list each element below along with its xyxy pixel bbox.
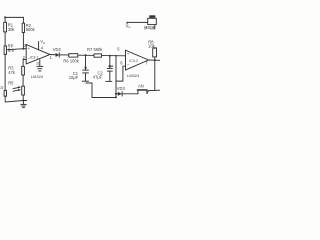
wire left rail bottom corner to ground rail <box>5 96 26 102</box>
wire left rail to R1 <box>4 17 6 22</box>
wire R5 to ground junction <box>22 95 24 101</box>
potentiometer RP <box>4 46 6 54</box>
wire -input to R3 chain <box>23 60 26 67</box>
op-amp IC3-1 <box>26 45 50 64</box>
svg-text:R6 100k: R6 100k <box>63 59 79 64</box>
wire R2 from top rail <box>22 17 24 23</box>
wire VD3 branch <box>116 93 118 95</box>
resistor R1 <box>4 22 7 32</box>
node +input junction <box>22 48 24 50</box>
svg-text:+: + <box>127 51 130 56</box>
svg-text:+: + <box>28 46 31 51</box>
wire R3 to R5 <box>22 75 24 86</box>
node ground junction <box>22 100 24 102</box>
wire VD2 to R6 <box>59 54 69 56</box>
pin 11 ground <box>39 60 41 66</box>
wire R2 down to +input node <box>22 33 24 49</box>
wire C1 bottom link to ground drop <box>86 83 92 98</box>
wire output op-amp2 to right edge <box>149 59 161 61</box>
buzzer HA <box>148 18 157 24</box>
svg-text:蜂鸣器: 蜂鸣器 <box>144 25 155 30</box>
svg-text:47μF: 47μF <box>93 74 103 79</box>
svg-text:47k: 47k <box>8 70 16 75</box>
svg-text:IC3-1: IC3-1 <box>30 55 39 59</box>
node rail junction <box>115 96 117 98</box>
op-amp IC3-2 <box>126 50 149 70</box>
svg-text:AN: AN <box>138 84 144 89</box>
wire main drop at x=116 <box>115 56 117 98</box>
resistor R8 <box>154 57 156 60</box>
resistor R7 <box>94 54 102 57</box>
wire output op-amp1 <box>50 54 56 56</box>
RP wiper arrow wire to +input node <box>9 48 24 51</box>
photoresistor R5 <box>22 86 25 95</box>
capacitor C1 <box>85 55 87 70</box>
node output junction <box>154 59 156 61</box>
svg-text:11: 11 <box>36 62 40 66</box>
ground symbol <box>22 101 24 105</box>
svg-text:LM324: LM324 <box>127 73 140 78</box>
wire output down to AN wire <box>154 60 156 90</box>
wire VG to buzzer <box>127 21 148 23</box>
resistor R4 (label cut off at edge) <box>4 90 6 96</box>
svg-text:R5: R5 <box>8 81 14 86</box>
node C2 junction <box>109 55 111 57</box>
wire R8 top stub <box>154 47 156 50</box>
svg-text:500k: 500k <box>26 27 36 32</box>
resistor R3 <box>22 66 25 75</box>
svg-text:IC3-2: IC3-2 <box>129 59 138 63</box>
wire AN to right edge <box>147 90 160 93</box>
wire pin6 feedback path <box>116 66 123 81</box>
resistor R6 <box>69 54 78 57</box>
capacitor C2 <box>109 56 111 69</box>
wire bottom ground rail <box>92 97 116 99</box>
svg-text:R7 560k: R7 560k <box>87 47 103 52</box>
svg-text:30k: 30k <box>8 27 16 32</box>
svg-text:LM324: LM324 <box>31 74 44 79</box>
wire top rail <box>5 16 23 18</box>
node A junction <box>85 54 87 56</box>
svg-text:VD3: VD3 <box>117 86 126 91</box>
svg-text:VD2: VD2 <box>53 47 62 52</box>
wire +input <box>23 48 26 50</box>
node top-left junction <box>4 16 6 18</box>
main wire to op-amp2 <box>78 54 126 57</box>
svg-text:10μF: 10μF <box>69 75 79 80</box>
wire left rail RP to R4 <box>4 54 6 90</box>
resistor R2 <box>22 23 24 32</box>
pin 4 wire and VG node <box>38 42 40 50</box>
wire R1 to RP <box>4 32 6 46</box>
node VD3 junction <box>115 93 117 95</box>
wire VD3 to AN <box>122 93 138 95</box>
